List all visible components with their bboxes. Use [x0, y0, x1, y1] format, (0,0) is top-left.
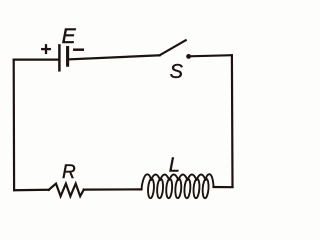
wire left vertical: [13, 60, 16, 191]
wire switch to top-right corner: [189, 55, 232, 56]
wire bottom-right corner to inductor: [214, 186, 233, 188]
svg-text:E: E: [62, 25, 77, 48]
minus sign: [74, 48, 83, 51]
wire inductor to resistor: [84, 188, 142, 190]
wire battery to switch hinge: [69, 55, 159, 59]
wire top-left to battery positive plate: [14, 58, 58, 60]
switch S blade (open): [160, 40, 186, 55]
battery E negative plate (short): [66, 48, 69, 66]
inductor L coil: [142, 174, 214, 198]
svg-text:S: S: [170, 61, 184, 83]
plus sign: [42, 45, 50, 53]
battery E positive plate (long): [58, 45, 61, 70]
switch contact node (dot): [186, 54, 191, 59]
wire resistor to bottom-left corner: [14, 189, 49, 192]
svg-text:L: L: [169, 155, 180, 177]
resistor R zigzag: [49, 184, 84, 197]
wire right vertical: [231, 55, 234, 187]
svg-text:R: R: [62, 162, 76, 183]
